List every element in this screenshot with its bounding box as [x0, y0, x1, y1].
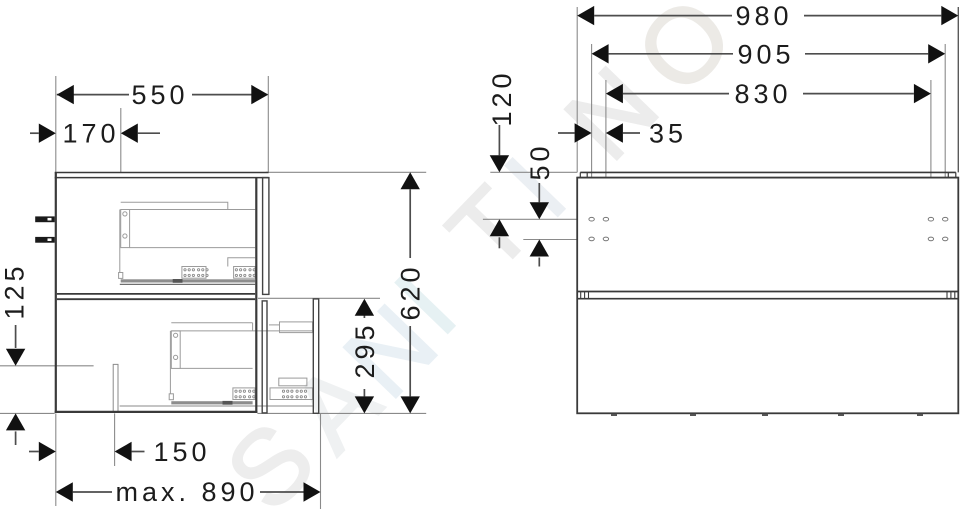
- svg-text:905: 905: [737, 39, 794, 69]
- svg-text:620: 620: [396, 263, 426, 320]
- svg-text:120: 120: [487, 69, 517, 126]
- svg-text:295: 295: [350, 321, 380, 378]
- svg-text:150: 150: [153, 437, 210, 467]
- svg-text:550: 550: [131, 80, 188, 110]
- svg-text:125: 125: [0, 262, 29, 319]
- svg-text:170: 170: [62, 119, 119, 149]
- svg-text:830: 830: [734, 79, 791, 109]
- svg-text:50: 50: [525, 142, 555, 180]
- svg-text:max. 890: max. 890: [115, 477, 258, 507]
- svg-text:35: 35: [649, 119, 687, 149]
- svg-text:980: 980: [735, 1, 792, 31]
